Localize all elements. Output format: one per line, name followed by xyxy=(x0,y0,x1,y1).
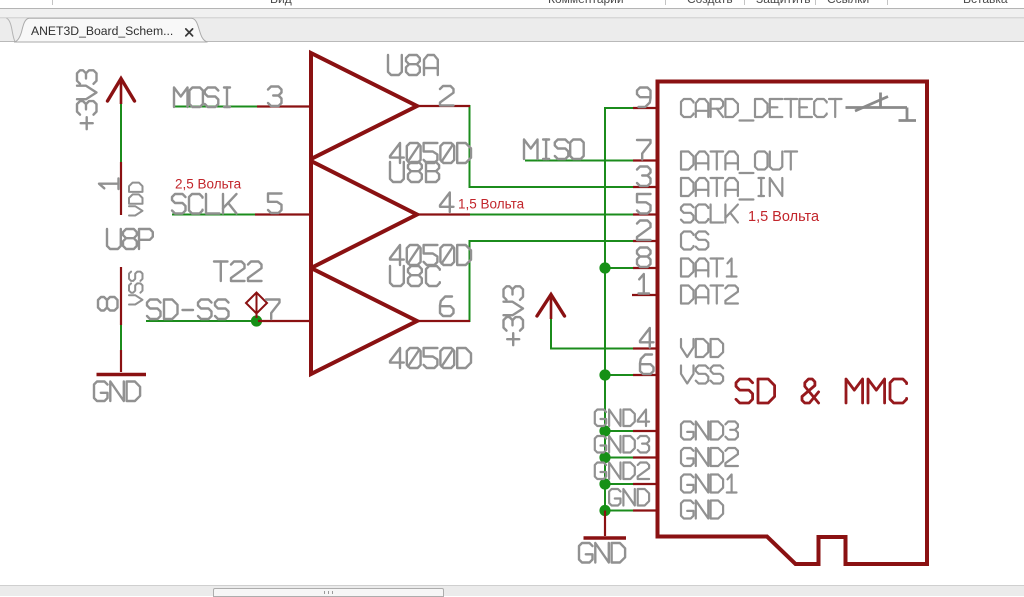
svg-text:2,5 Вольта: 2,5 Вольта xyxy=(175,177,242,192)
svg-text:1,5 Вольта: 1,5 Вольта xyxy=(748,209,820,225)
svg-text:ANET3D_Board_Schem...: ANET3D_Board_Schem... xyxy=(31,24,173,38)
svg-text:1,5 Вольта: 1,5 Вольта xyxy=(458,197,525,212)
